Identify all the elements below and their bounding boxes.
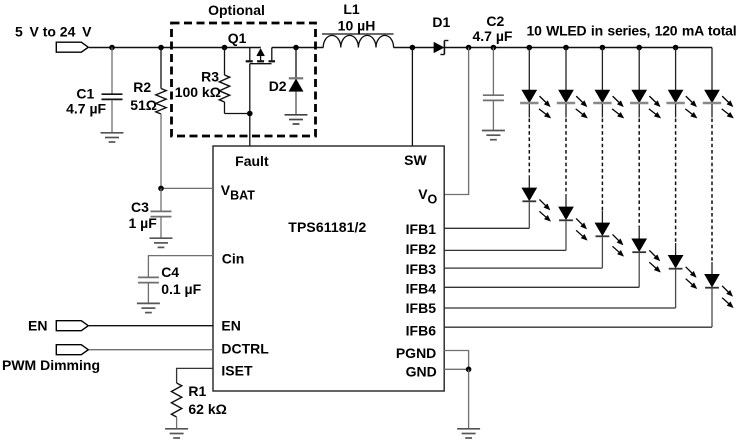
- wire LED string 6 dashed (more LEDs): [711, 119, 713, 263]
- ground C2: [482, 130, 505, 132]
- svg-text:Q1: Q1: [228, 30, 247, 46]
- ground C4: [137, 302, 160, 304]
- svg-text:D2: D2: [269, 78, 287, 94]
- optional dashed box: [172, 23, 316, 136]
- wire LED string 2 above lower LED: [565, 195, 567, 208]
- wire C3 bottom lead: [160, 217, 162, 239]
- node Q1 gate / R3 / Fault junction: [247, 111, 253, 117]
- wire LED string 5 dashed (more LEDs): [675, 119, 677, 244]
- wire Cin pin to C4: [148, 256, 213, 278]
- svg-text:TPS61181/2: TPS61181/2: [288, 219, 366, 235]
- svg-text:IFB4: IFB4: [406, 281, 437, 297]
- svg-text:EN: EN: [28, 318, 47, 334]
- svg-text:Cin: Cin: [222, 250, 245, 266]
- wire IFB3 line to LED string 3: [444, 267, 602, 269]
- svg-text:0.1 µF: 0.1 µF: [161, 281, 201, 297]
- LED string 6 upper WLED: [703, 90, 734, 118]
- diode D1 (Schottky): [434, 41, 449, 55]
- svg-text:R3: R3: [201, 69, 219, 85]
- wire R3 to Q1 gate node: [225, 113, 250, 115]
- input connector 5V-24V: [56, 42, 88, 52]
- ground D2: [285, 114, 308, 116]
- svg-text:PWM Dimming: PWM Dimming: [2, 357, 100, 373]
- wire LED string 2 dashed (more LEDs): [565, 119, 567, 195]
- wire IFB4 line to LED string 4: [444, 286, 639, 288]
- node SW: [410, 45, 416, 51]
- svg-text:100 kΩ: 100 kΩ: [175, 84, 221, 100]
- EN input connector: [56, 321, 88, 331]
- LED string 2 upper WLED: [557, 90, 588, 118]
- wire R3 top lead: [224, 48, 226, 76]
- LED string 3 lower WLED: [595, 223, 623, 256]
- svg-text:SW: SW: [404, 152, 427, 168]
- wire C2 top lead: [492, 48, 494, 96]
- wire VO pin connection: [444, 48, 468, 195]
- wire LED string 1 above lower LED: [528, 176, 530, 189]
- svg-text:C4: C4: [161, 264, 179, 280]
- wire LED string 4 to IFB4: [638, 253, 640, 287]
- wire LED string 5 above lower LED: [675, 243, 677, 256]
- ground GND pin: [457, 428, 480, 430]
- svg-text:51Ω: 51Ω: [130, 97, 157, 113]
- wire LED string 5 top segment: [675, 48, 677, 91]
- capacitor C3: [151, 210, 172, 212]
- wire LED string 2 below upper LED: [565, 104, 567, 117]
- capacitor C4: [138, 276, 159, 278]
- wire D1 cathode to LED anode rail (VOUT): [444, 47, 712, 49]
- wire LED string 2 top segment: [565, 48, 567, 91]
- wire LED string 3 to IFB3: [601, 237, 603, 268]
- LED string 1 lower WLED: [522, 188, 550, 221]
- svg-text:R1: R1: [188, 383, 206, 399]
- capacitor C2: [483, 94, 504, 96]
- wire IFB6 line to LED string 6: [444, 326, 712, 328]
- node VIN at R2: [158, 45, 164, 51]
- svg-text:62 kΩ: 62 kΩ: [188, 401, 226, 417]
- svg-text:ISET: ISET: [221, 363, 253, 379]
- diode D2: [289, 78, 303, 91]
- ground C3: [150, 237, 173, 239]
- svg-text:VO: VO: [418, 186, 437, 206]
- LED string 2 lower WLED: [559, 207, 587, 240]
- node LED string 2 anode rail: [563, 45, 569, 51]
- node VOUT at VO sense: [466, 45, 472, 51]
- wire D2 anode lead: [295, 91, 297, 114]
- wire EN connector to EN pin: [89, 325, 213, 327]
- wire PGND pin to ground net: [444, 351, 468, 370]
- wire GND pin to ground: [444, 368, 468, 370]
- wire LED string 3 below upper LED: [601, 104, 603, 117]
- LED string 5 lower WLED: [669, 256, 697, 289]
- node LED string 5 anode rail: [673, 45, 679, 51]
- wire input rail (5V-24V to Q1 source): [89, 47, 261, 49]
- wire LED string 4 below upper LED: [638, 104, 640, 117]
- resistor R1: [171, 383, 181, 417]
- svg-text:IFB3: IFB3: [406, 261, 437, 277]
- inductor L1: [322, 34, 394, 48]
- wire LED string 3 dashed (more LEDs): [601, 119, 603, 211]
- wire LED string 6 above lower LED: [711, 262, 713, 275]
- LED string 4 lower WLED: [632, 239, 660, 272]
- svg-text:10 WLED in series, 120 mA tota: 10 WLED in series, 120 mA total: [527, 22, 737, 38]
- wire Q1 gate to Fault pin: [249, 64, 251, 146]
- svg-text:Optional: Optional: [208, 2, 265, 18]
- svg-text:10 µH: 10 µH: [338, 18, 376, 34]
- wire C2 bottom lead: [492, 100, 494, 130]
- wire LED string 6 to IFB6: [711, 289, 713, 328]
- wire IFB1 line to LED string 1: [444, 227, 529, 229]
- wire LED string 1 to IFB1: [528, 202, 530, 228]
- wire LED string 5 below upper LED: [675, 104, 677, 117]
- svg-text:C2: C2: [486, 13, 504, 29]
- svg-text:EN: EN: [221, 318, 240, 334]
- svg-text:GND: GND: [406, 363, 437, 379]
- LED string 4 upper WLED: [630, 90, 661, 118]
- wire LED string 4 top segment: [638, 48, 640, 91]
- wire LED string 4 dashed (more LEDs): [638, 119, 640, 227]
- svg-text:IFB2: IFB2: [406, 241, 437, 257]
- node LED string 3 anode rail: [600, 45, 606, 51]
- svg-text:C1: C1: [76, 86, 94, 102]
- LED string 1 upper WLED: [520, 90, 551, 118]
- wire C3 top lead: [160, 188, 162, 211]
- wire VBAT pin to C3 node: [161, 187, 213, 189]
- node PGND/GND junction: [466, 367, 472, 373]
- ground C1: [101, 132, 124, 134]
- wire LED string 1 top segment: [528, 48, 530, 91]
- wire LED string 4 above lower LED: [638, 227, 640, 240]
- resistor R2: [156, 89, 166, 115]
- wire LED string 3 top segment: [601, 48, 603, 91]
- svg-text:4.7 µF: 4.7 µF: [66, 100, 106, 116]
- wire LED string 6 below upper LED: [711, 104, 713, 117]
- wire LED string 2 to IFB2: [565, 221, 567, 250]
- wire ISET pin to R1: [177, 368, 213, 383]
- wire LED string 3 above lower LED: [601, 211, 603, 224]
- LED string 3 upper WLED: [593, 90, 624, 118]
- svg-text:Fault: Fault: [235, 153, 269, 169]
- LED string 6 lower WLED: [705, 275, 733, 308]
- wire C1 bottom lead: [111, 100, 113, 133]
- wire D2 cathode lead: [295, 48, 297, 79]
- svg-text:IFB1: IFB1: [406, 221, 437, 237]
- wire SW pin drop: [411, 48, 413, 147]
- svg-text:DCTRL: DCTRL: [221, 340, 269, 356]
- wire LED string 1 dashed (more LEDs): [528, 119, 530, 176]
- wire LED string 6 top segment: [711, 48, 713, 91]
- wire LED string 5 to IFB5: [675, 270, 677, 308]
- wire L1 to D1 anode (SW node): [393, 47, 434, 49]
- capacitor C1: [102, 93, 123, 95]
- transistor Q1 (PMOS): [246, 48, 275, 64]
- wire DCTRL connector to DCTRL pin: [89, 349, 213, 351]
- node LED string 4 anode rail: [636, 45, 642, 51]
- resistor R3: [219, 75, 229, 102]
- ground R1: [165, 428, 188, 430]
- svg-text:R2: R2: [133, 79, 151, 95]
- svg-text:PGND: PGND: [396, 345, 436, 361]
- LED string 5 upper WLED: [666, 90, 697, 118]
- node VBAT / R2 / C3 junction: [158, 186, 164, 192]
- node VOUT at C2: [491, 45, 497, 51]
- node LED string 1 anode rail: [527, 45, 533, 51]
- node at R3 top / Q1 source: [222, 45, 228, 51]
- wire LED string 1 below upper LED: [528, 104, 530, 117]
- svg-text:D1: D1: [432, 14, 450, 30]
- wire R3 bottom lead: [224, 102, 226, 114]
- wire C4 bottom lead: [147, 283, 149, 304]
- wire R2 top lead: [160, 48, 162, 89]
- wire GND down lead: [468, 369, 470, 429]
- wire IFB5 line to LED string 5: [444, 307, 675, 309]
- node Q1 drain at D2: [293, 45, 299, 51]
- svg-text:IFB6: IFB6: [406, 323, 437, 339]
- wire R1 bottom lead: [176, 417, 178, 429]
- IC U1 TPS61181/2 outline: [213, 146, 444, 391]
- wire R2 bottom lead to VBAT node: [160, 114, 162, 188]
- wire IFB2 line to LED string 2: [444, 249, 566, 251]
- wire C1 top lead: [111, 48, 113, 95]
- node VIN at C1: [109, 45, 115, 51]
- svg-text:4.7 µF: 4.7 µF: [473, 28, 513, 44]
- svg-text:IFB5: IFB5: [406, 300, 437, 316]
- wire Q1 drain to L1: [272, 47, 324, 49]
- svg-text:L1: L1: [343, 1, 360, 17]
- svg-text:C3: C3: [131, 199, 149, 215]
- svg-text:VBAT: VBAT: [221, 182, 255, 202]
- svg-text:5 V to 24 V: 5 V to 24 V: [15, 23, 92, 39]
- DCTRL input connector: [56, 345, 88, 355]
- svg-text:1 µF: 1 µF: [129, 215, 158, 231]
